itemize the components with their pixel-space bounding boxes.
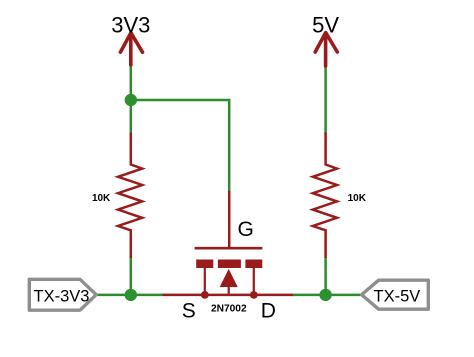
svg-text:10K: 10K	[348, 193, 367, 204]
svg-text:2N7002: 2N7002	[211, 303, 247, 314]
svg-text:3V3: 3V3	[111, 13, 150, 38]
svg-text:5V: 5V	[312, 13, 339, 38]
svg-text:D: D	[261, 300, 276, 323]
svg-text:TX-3V3: TX-3V3	[34, 287, 90, 305]
svg-text:TX-5V: TX-5V	[374, 288, 421, 306]
svg-text:G: G	[238, 218, 254, 241]
svg-text:10K: 10K	[92, 193, 111, 204]
svg-text:S: S	[182, 300, 196, 323]
